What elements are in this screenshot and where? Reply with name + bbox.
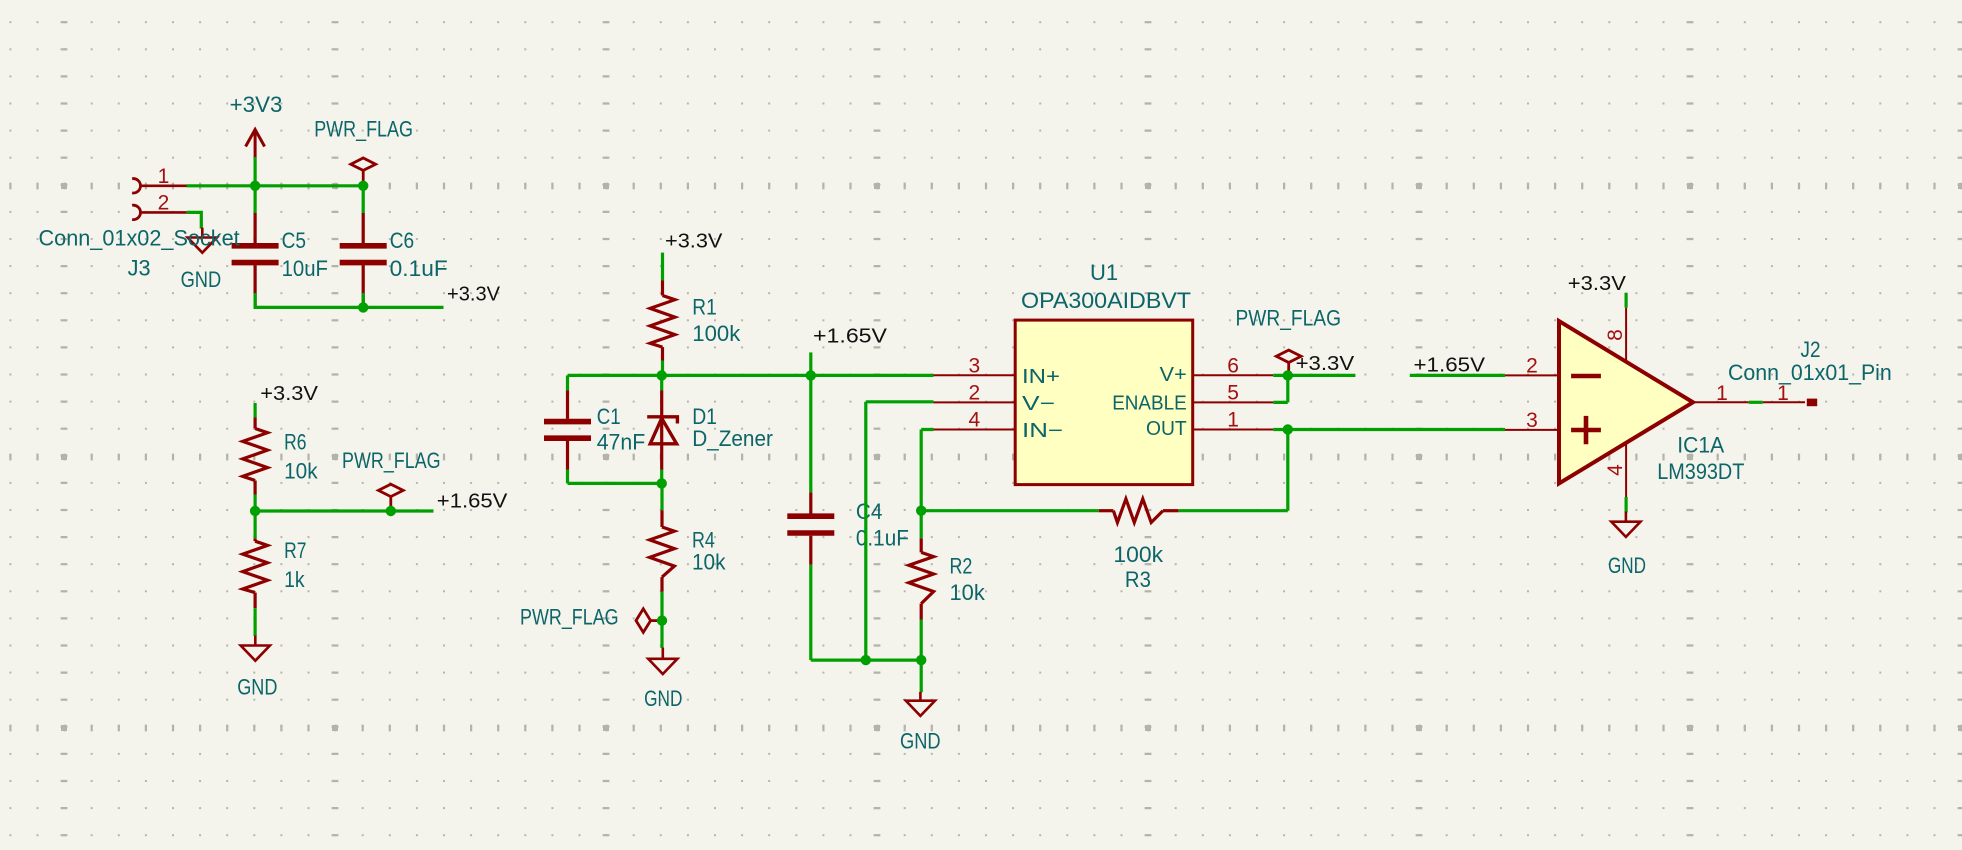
svg-text:2: 2 bbox=[1526, 354, 1538, 377]
power flag (R4) bbox=[636, 609, 651, 633]
junction R6/R7 bbox=[250, 506, 260, 516]
svg-text:4: 4 bbox=[1604, 464, 1627, 476]
wire V- net bbox=[866, 402, 934, 660]
svg-text:47nF: 47nF bbox=[597, 430, 646, 455]
U1 pin 3 IN+ bbox=[934, 374, 1016, 376]
junction IN-/R3 bbox=[916, 506, 926, 516]
connector J2 pin 1 bbox=[1763, 401, 1805, 403]
capacitor C5 bbox=[254, 213, 257, 243]
wire pin8 stub bbox=[1624, 293, 1627, 308]
minus input marker bbox=[1571, 374, 1601, 379]
plus input marker bbox=[1571, 416, 1601, 444]
U1 pin 4 IN- bbox=[934, 429, 1016, 431]
svg-text:+1.65V: +1.65V bbox=[813, 325, 888, 347]
svg-text:V+: V+ bbox=[1160, 364, 1187, 386]
resistor R4 bbox=[660, 510, 663, 527]
wire D1 to R4 bbox=[660, 483, 663, 510]
junction V+ bbox=[1283, 370, 1293, 380]
wire ENABLE jog bbox=[1273, 375, 1288, 402]
svg-text:J3: J3 bbox=[128, 255, 151, 280]
wire node to R2 bbox=[920, 511, 923, 539]
comparator IC1A body bbox=[1559, 321, 1693, 483]
wire +1.65V to pin2 bbox=[1410, 374, 1505, 377]
wire +3.3V label to R1 bbox=[661, 253, 664, 281]
IC1A pin 2 bbox=[1505, 374, 1559, 376]
wire OUT net bbox=[1178, 430, 1505, 511]
svg-text:100k: 100k bbox=[692, 321, 741, 346]
zener diode D1 bbox=[660, 391, 663, 470]
wire output to J2 bbox=[1749, 401, 1763, 404]
svg-text:LM393DT: LM393DT bbox=[1657, 459, 1744, 484]
svg-text:2: 2 bbox=[158, 191, 170, 214]
svg-text:8: 8 bbox=[1604, 329, 1627, 341]
ground symbol at J3 bbox=[201, 228, 204, 238]
wire C6 top bbox=[362, 186, 365, 213]
svg-text:R3: R3 bbox=[1125, 567, 1151, 592]
svg-text:R6: R6 bbox=[284, 430, 306, 455]
svg-text:1: 1 bbox=[1227, 409, 1239, 432]
svg-text:1: 1 bbox=[158, 165, 170, 188]
svg-text:C4: C4 bbox=[856, 499, 883, 524]
junction PWR_FLAG divider bbox=[386, 506, 396, 516]
resistor R6 bbox=[254, 418, 257, 429]
wire R6 to R7 and +1.65V bbox=[255, 495, 433, 539]
wire J3 pin2 to GND bbox=[187, 212, 202, 228]
wire pin4 stub bbox=[1624, 497, 1627, 513]
svg-text:GND: GND bbox=[900, 728, 941, 753]
junction rail/C4 bbox=[806, 370, 816, 380]
ground symbol under R2 bbox=[919, 692, 922, 701]
svg-text:3: 3 bbox=[1526, 409, 1538, 432]
svg-text:5: 5 bbox=[1227, 382, 1239, 405]
power flag (divider) bbox=[378, 484, 403, 496]
svg-text:R2: R2 bbox=[950, 554, 973, 579]
svg-text:GND: GND bbox=[181, 267, 222, 292]
svg-text:+3.3V: +3.3V bbox=[447, 284, 501, 306]
junction R1 bottom bbox=[657, 370, 667, 380]
wire main +1.65V rail bbox=[568, 374, 934, 377]
resistor R3 feedback bbox=[921, 509, 1099, 512]
wire R7 to GND bbox=[254, 608, 257, 636]
IC1A output pin 1 bbox=[1693, 401, 1749, 403]
svg-text:OPA300AIDBVT: OPA300AIDBVT bbox=[1021, 288, 1191, 313]
svg-text:IC1A: IC1A bbox=[1677, 432, 1724, 457]
svg-text:+3V3: +3V3 bbox=[230, 92, 283, 117]
svg-text:1k: 1k bbox=[284, 567, 305, 592]
power symbol +3V3 bbox=[254, 131, 257, 158]
ground symbol under R4 bbox=[661, 648, 664, 659]
wire V+ to +3.3V bbox=[1273, 374, 1355, 377]
svg-text:PWR_FLAG: PWR_FLAG bbox=[314, 117, 413, 142]
svg-text:PWR_FLAG: PWR_FLAG bbox=[520, 605, 619, 630]
connector J3 pin 2 bbox=[132, 205, 140, 219]
power flag near C6 bbox=[351, 158, 376, 170]
svg-text:10k: 10k bbox=[692, 550, 726, 575]
svg-text:U1: U1 bbox=[1090, 260, 1118, 285]
U1 pin 2 V- bbox=[934, 401, 1016, 403]
resistor R7 bbox=[254, 538, 257, 541]
wire C6 bottom bbox=[362, 293, 365, 307]
svg-text:IN−: IN− bbox=[1022, 420, 1063, 442]
svg-text:Conn_01x02_Socket: Conn_01x02_Socket bbox=[39, 225, 240, 250]
capacitor C4 bbox=[809, 492, 812, 513]
wire C4 branch bbox=[811, 375, 921, 660]
svg-text:PWR_FLAG: PWR_FLAG bbox=[342, 448, 441, 473]
IC1A pin 3 bbox=[1505, 429, 1559, 431]
svg-text:ENABLE: ENABLE bbox=[1112, 393, 1187, 415]
svg-text:C1: C1 bbox=[597, 404, 621, 429]
svg-text:R7: R7 bbox=[284, 538, 306, 563]
svg-text:OUT: OUT bbox=[1146, 418, 1187, 440]
svg-text:1: 1 bbox=[1777, 382, 1789, 405]
svg-text:+3.3V: +3.3V bbox=[1568, 273, 1627, 295]
capacitor C6 bbox=[362, 213, 365, 243]
wire J3 pin1 to +3V3 rail bbox=[187, 184, 364, 187]
capacitor C1 bbox=[566, 391, 569, 419]
ground symbol under R7 bbox=[254, 636, 257, 646]
svg-text:2: 2 bbox=[968, 382, 980, 405]
junction D1 bottom bbox=[657, 478, 667, 488]
svg-text:10k: 10k bbox=[284, 459, 318, 484]
wire IN- net bbox=[921, 430, 933, 511]
svg-text:GND: GND bbox=[1608, 553, 1646, 578]
junction R2 bottom bbox=[916, 655, 926, 665]
svg-text:GND: GND bbox=[237, 675, 277, 700]
junction at +3V3/pin1 bbox=[250, 181, 260, 191]
resistor R2 bbox=[920, 538, 923, 552]
wire C5/C6 bottom to +3.3V label bbox=[255, 293, 443, 307]
svg-text:IN+: IN+ bbox=[1022, 366, 1060, 388]
U1 pin 6 V+ bbox=[1193, 374, 1274, 376]
wire rail stub up bbox=[809, 352, 812, 375]
junction C6 bottom bbox=[358, 302, 368, 312]
svg-text:+1.65V: +1.65V bbox=[1414, 355, 1486, 377]
resistor R1 bbox=[661, 281, 664, 296]
svg-text:GND: GND bbox=[644, 686, 682, 711]
svg-text:C6: C6 bbox=[390, 228, 414, 253]
svg-text:1: 1 bbox=[1716, 382, 1728, 405]
U1 pin 5 ENABLE bbox=[1193, 401, 1274, 403]
svg-text:C5: C5 bbox=[282, 228, 306, 253]
svg-text:+3.3V: +3.3V bbox=[260, 383, 318, 405]
connector J3 pin 1 bbox=[132, 179, 140, 193]
svg-text:J2: J2 bbox=[1801, 337, 1821, 362]
svg-text:D_Zener: D_Zener bbox=[692, 426, 773, 451]
junction at PWR_FLAG/pin1 bbox=[358, 181, 368, 191]
op-amp U1 body bbox=[1015, 320, 1192, 485]
IC1A pin 8 bbox=[1625, 308, 1627, 362]
svg-text:100k: 100k bbox=[1113, 542, 1164, 567]
svg-text:R1: R1 bbox=[692, 295, 716, 320]
svg-text:10k: 10k bbox=[950, 580, 986, 605]
svg-text:+1.65V: +1.65V bbox=[437, 490, 508, 512]
svg-text:3: 3 bbox=[968, 355, 980, 378]
svg-text:0.1uF: 0.1uF bbox=[390, 256, 448, 281]
wire +3V3 to rail bbox=[254, 157, 257, 213]
svg-text:4: 4 bbox=[968, 409, 980, 432]
junction OUT bbox=[1283, 424, 1293, 434]
power flag (U1) bbox=[1276, 350, 1301, 362]
ground symbol under IC1A bbox=[1625, 512, 1628, 522]
junction R4/GND bbox=[657, 615, 667, 625]
junction V- bottom bbox=[861, 655, 871, 665]
svg-text:6: 6 bbox=[1227, 355, 1239, 378]
svg-text:+3.3V: +3.3V bbox=[1296, 353, 1355, 375]
wire rail to D1 bbox=[660, 375, 663, 390]
U1 pin 1 OUT bbox=[1193, 429, 1274, 431]
svg-text:+3.3V: +3.3V bbox=[665, 231, 723, 253]
wire C1 branch bbox=[568, 375, 662, 483]
IC1A pin 4 bbox=[1625, 444, 1627, 497]
wire +3.3V label to R6 bbox=[254, 403, 257, 418]
svg-text:PWR_FLAG: PWR_FLAG bbox=[1236, 306, 1342, 331]
svg-text:0.1uF: 0.1uF bbox=[856, 525, 909, 550]
svg-text:V−: V− bbox=[1022, 393, 1055, 415]
svg-text:Conn_01x01_Pin: Conn_01x01_Pin bbox=[1728, 360, 1892, 385]
svg-text:10uF: 10uF bbox=[282, 256, 328, 281]
